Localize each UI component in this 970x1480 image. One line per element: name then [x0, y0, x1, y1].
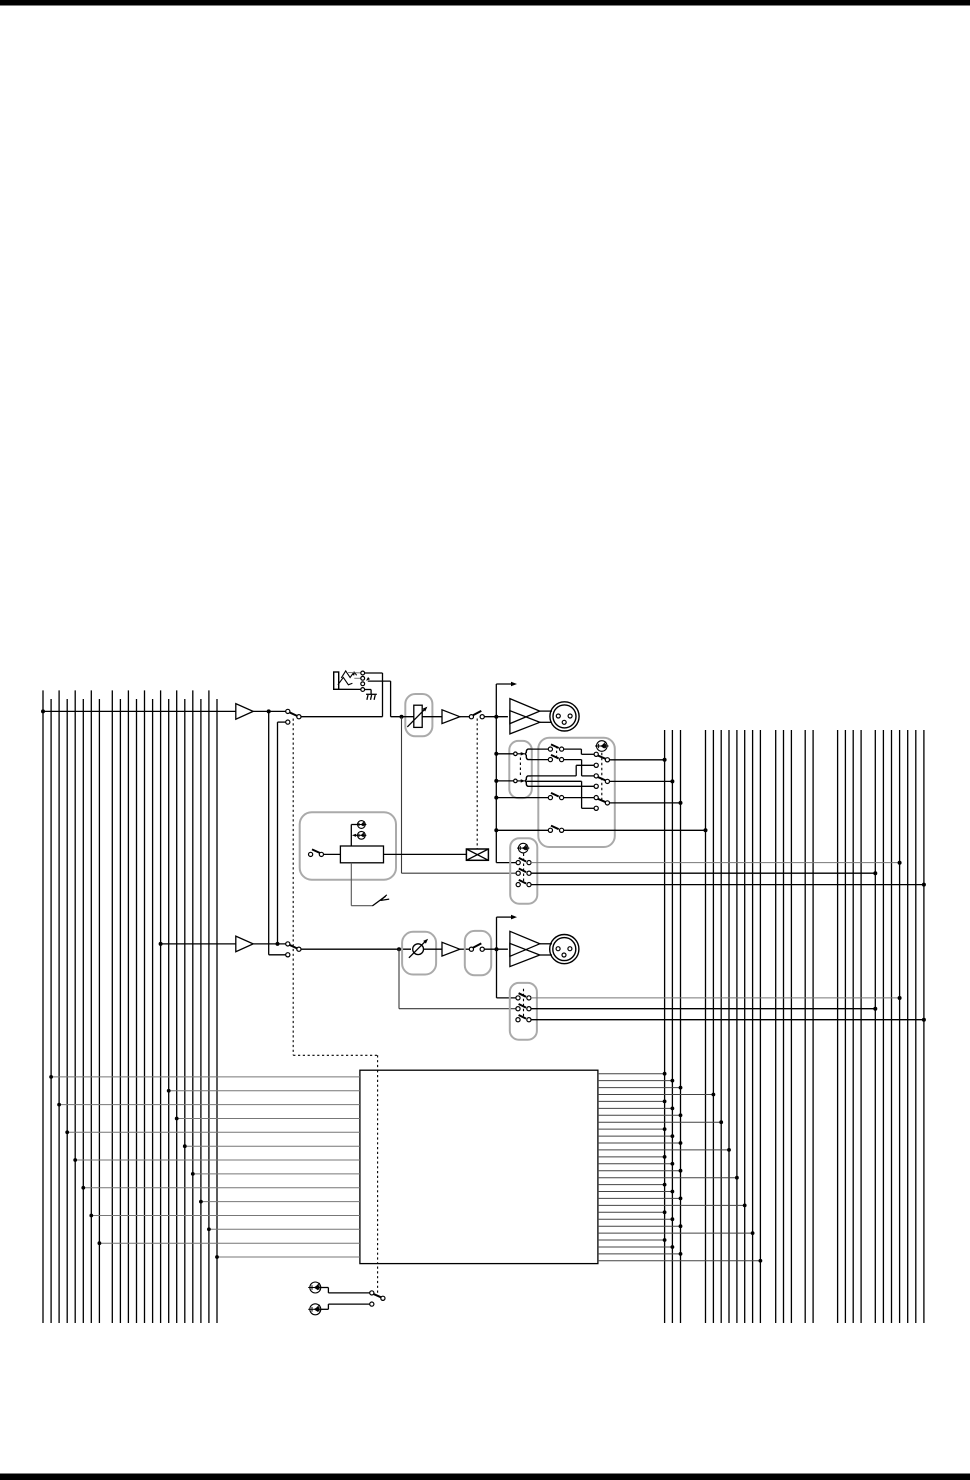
connector: ch1 XLR output	[550, 702, 579, 731]
bottom selector common	[381, 1296, 385, 1300]
wire: to output driver	[484, 716, 508, 718]
group box: ch1 routing switches	[538, 738, 615, 847]
bottom page border bar	[0, 1474, 970, 1480]
phantom plug symbol: direct-out gang	[517, 843, 529, 853]
wire: S1a common to insert send	[301, 716, 383, 718]
group box: ch2 mute switch	[465, 931, 491, 975]
wire: direct row3 out	[531, 884, 924, 886]
phantom plug symbol: routing gang	[595, 741, 609, 752]
phantom plug symbol: bottom 2	[308, 1304, 322, 1315]
jack contact 3	[361, 682, 365, 686]
switch S2a bottom contact	[286, 953, 290, 957]
jack normalling symbol 2	[514, 779, 518, 783]
switch: direct-out row2	[516, 871, 520, 875]
wire: pad block down	[350, 863, 352, 906]
wire: to ch2 driver	[484, 948, 508, 950]
switch S2a common	[297, 947, 301, 951]
switch: direct-out row3	[516, 883, 520, 887]
return plug arrowhead	[366, 677, 370, 681]
op-amp: ch2 input buffer	[236, 936, 253, 952]
jack contact 4	[361, 688, 365, 692]
direct row3 lever	[519, 880, 526, 884]
wire: driver- to XLR2	[540, 954, 552, 956]
XLR1 pin 2	[556, 714, 560, 718]
selector lever A	[598, 756, 606, 759]
wire: down to ch2 row	[277, 722, 279, 944]
jack contact 1	[361, 671, 365, 675]
wire	[327, 1304, 329, 1309]
group box: ch1 fader	[405, 694, 432, 736]
wire: pot to buffer	[423, 948, 442, 950]
dashed gang link direct-out	[523, 854, 525, 883]
wire: jack send	[365, 672, 383, 674]
wire: bus junction to normalling 1	[496, 753, 513, 755]
wire: to pad block	[324, 853, 341, 855]
XLR1 pin 3	[562, 720, 566, 724]
phantom plug symbol: bottom 1	[308, 1282, 322, 1293]
switch S1b contact B	[480, 715, 484, 719]
op-amp: ch1 line driver -	[510, 711, 540, 734]
wire: S2a common to pot	[301, 948, 411, 950]
wire: to momentary contact	[351, 905, 372, 907]
switch S1b lever	[473, 711, 481, 715]
switch S1b contact A	[469, 715, 473, 719]
fader wiper arrow	[407, 708, 426, 727]
wire	[460, 948, 470, 950]
wire: direct row2 out	[531, 872, 875, 874]
wire	[327, 1288, 329, 1293]
op-amp: ch1 input buffer	[236, 704, 253, 720]
wire: jack sleeve	[365, 689, 372, 691]
switch: ch2 direct row2	[516, 1007, 520, 1011]
connector: ch2 XLR output	[550, 935, 579, 964]
switch: ch1 route SW1	[531, 748, 548, 750]
SW1 lever	[551, 744, 559, 748]
wire: pad to phantom feed	[350, 825, 352, 847]
wire	[321, 1287, 328, 1289]
phantom plug symbol: pad feed 2	[356, 831, 366, 839]
switch S2b contact B	[480, 947, 484, 951]
switch S1a lever	[289, 712, 297, 716]
wire: ch2 direct row1 out	[531, 997, 900, 999]
node: ch2 output junction	[495, 947, 499, 951]
switch S2a lever	[289, 945, 297, 949]
SW2 lever	[551, 755, 559, 759]
wire: to bottom switch top contact	[328, 1292, 369, 1294]
wire: pad to attenuator	[384, 853, 467, 855]
dashed gang link to bottom switch	[377, 1055, 379, 1293]
wire: route C out	[610, 802, 681, 804]
pad switch lever	[312, 849, 320, 853]
wire: route B out	[610, 780, 673, 782]
bottom selector top contact	[370, 1291, 374, 1295]
switch S2b lever	[473, 943, 481, 947]
wire: up to insert jack tip	[382, 673, 384, 717]
dashed gang link normalling	[519, 758, 521, 778]
dashed gang link S1a/S2a down	[292, 719, 294, 1056]
op-amp: ch2 line driver -	[510, 943, 540, 966]
group box: ch1 direct-out switches	[510, 838, 537, 904]
wire: into fader	[391, 716, 414, 718]
attenuator cross box	[466, 849, 488, 860]
switch S1a common	[297, 715, 301, 719]
ch2 direct row3 lever	[519, 1015, 526, 1019]
switch: ch2 direct row3	[516, 1018, 520, 1022]
wire: channel 2 input from bus	[161, 943, 236, 945]
wire: return down	[390, 681, 392, 717]
switch: ch2 direct row1	[516, 996, 520, 1000]
block: bus assign matrix	[360, 1070, 598, 1263]
node: ch1 post-buffer junction	[267, 709, 271, 713]
right output bus wires	[665, 730, 924, 1323]
switch: ch1 route SW3	[498, 797, 548, 799]
wires: matrix outputs to bus (right)	[598, 1073, 665, 1075]
switch S2a top contact	[286, 942, 290, 946]
selector lever C	[598, 799, 606, 802]
wire: ch2 meter feed	[497, 916, 513, 918]
arrow: ch1 meter feed	[511, 682, 517, 687]
wire: S1a bottom contact left	[278, 721, 286, 723]
direct row2 lever	[519, 869, 526, 873]
potentiometer: ch1 fader	[414, 705, 422, 727]
wire: ch2 direct row3 out	[531, 1019, 924, 1021]
wire: normalling2 bottom to contact	[531, 785, 594, 787]
selector switch bank: ch1 output routing	[594, 752, 598, 756]
switch: direct-out row1	[516, 861, 520, 865]
momentary contact symbol	[372, 896, 385, 906]
wire: driver+ to XLR2	[540, 943, 552, 945]
dashed gang link ch2 direct	[523, 989, 525, 1018]
wire: ch2 direct row2 feed	[399, 1008, 516, 1010]
wire: sleeve to ground	[370, 690, 372, 695]
wire: direct-out switch row2 feed	[402, 872, 517, 874]
switch: pad select	[309, 852, 313, 856]
group box: ch1 pad-transformer	[300, 812, 396, 879]
wire: driver+ to XLR	[540, 710, 552, 712]
wire: meter feed	[496, 683, 512, 685]
wire: plug2 to vertical with arrow	[354, 834, 357, 836]
wire: direct row1 out	[531, 862, 900, 864]
jack normalling symbol 1	[514, 752, 518, 756]
wire: channel 1 input from bus	[43, 710, 236, 712]
wire: ch1 junction down to ch2 switch	[268, 711, 270, 954]
ch2 direct row1 lever	[519, 993, 526, 997]
switch: ch1 route SW2	[531, 759, 548, 761]
XLR2 pin 1	[568, 947, 572, 951]
node: ch1 insert return junction	[400, 715, 404, 719]
wire: aux send out	[564, 829, 706, 831]
wire	[321, 1308, 328, 1310]
jack contact 2	[361, 676, 365, 680]
op-amp: ch2 post-pot buffer	[442, 942, 460, 956]
wire: down to ch2 direct row2	[398, 949, 400, 1009]
wire	[460, 716, 470, 718]
arrow: ch2 meter feed	[511, 915, 517, 920]
wire: normalling2 top to contact	[531, 775, 576, 777]
node: ch1 bus tap	[41, 709, 45, 713]
switch S1a top contact	[286, 709, 290, 713]
dashed gang link SW1-SW2	[556, 746, 558, 758]
node: ch2 bus tap	[159, 942, 163, 946]
switch S2b contact A	[469, 947, 473, 951]
dashed gang link horizontal	[293, 1054, 377, 1056]
SW3 lever	[551, 793, 559, 797]
wire: to bottom switch lower contact	[328, 1303, 369, 1305]
wire: up to meter arrow	[495, 684, 497, 717]
block: pad/attenuator	[340, 846, 383, 863]
jack spring arrowhead	[352, 672, 355, 676]
wire: ch2 direct row2 out	[531, 1008, 875, 1010]
group box: ch2 level pot	[402, 932, 436, 975]
phantom plug symbol: pad feed 1	[356, 821, 366, 829]
wire: down to direct-out switch row2	[401, 717, 403, 874]
selector lever B	[598, 777, 606, 780]
op-amp: ch1 post-fader buffer	[442, 710, 460, 724]
top page border bar	[0, 0, 970, 6]
op-amp: ch2 line driver +	[510, 931, 540, 956]
left input bus wires	[43, 690, 217, 1323]
wire: normalling2 mid to lower contact	[526, 780, 581, 782]
ground: chassis ground symbol	[366, 694, 377, 700]
wire: driver- to XLR	[540, 721, 552, 723]
wire: to ch2 switch lower contact	[269, 954, 286, 956]
dashed gang link S1b to pad	[476, 719, 478, 850]
wire: fader to buffer	[422, 716, 442, 718]
switch S1a bottom contact	[286, 720, 290, 724]
wire: buffer out	[253, 710, 286, 712]
XLR2 pin 3	[562, 953, 566, 957]
direct row1 lever	[519, 858, 526, 862]
SW4 lever	[551, 826, 559, 830]
wire: ch2 junction down	[496, 949, 498, 998]
wire: to ch2 direct row1	[497, 997, 516, 999]
node: ch1 output junction	[494, 715, 498, 719]
group box: ch1 insert normalling	[509, 741, 532, 798]
op-amp: ch1 line driver +	[510, 699, 540, 724]
wire: jack return	[368, 680, 391, 682]
ch2 direct row2 lever	[519, 1004, 526, 1008]
wire: bus junction to normalling 2	[496, 780, 513, 782]
node: ch1 link joins ch2	[276, 942, 280, 946]
wire: ch1 junction down feed	[495, 717, 497, 863]
bottom selector lever	[373, 1294, 381, 1298]
node: ch2 pot junction	[397, 947, 401, 951]
connector J1: insert jack	[334, 671, 361, 690]
XLR1 pin 1	[568, 714, 572, 718]
dashed gang link selectors	[601, 753, 603, 802]
potentiometer: ch2 rotary	[413, 944, 424, 955]
XLR2 pin 2	[556, 947, 560, 951]
switch SW4: ch1 aux send	[496, 829, 548, 831]
wire: to direct-out switch row1	[496, 862, 516, 864]
bottom selector bottom contact	[370, 1302, 374, 1306]
wires: bus taps into matrix (left)	[51, 1076, 360, 1078]
wire	[253, 943, 286, 945]
wire: route A out	[610, 759, 665, 761]
wire: up to ch2 meter arrow	[496, 917, 498, 949]
group box: ch2 direct-out switches	[510, 983, 537, 1040]
dashed gang link through matrix	[377, 1070, 379, 1263]
